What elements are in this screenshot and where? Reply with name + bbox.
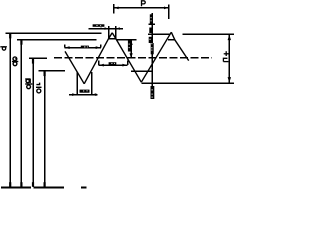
dr dimension vertical bbox=[44, 71, 46, 187]
d reference line bbox=[6, 32, 102, 34]
arrow d bottom bbox=[9, 182, 11, 186]
arrow de bottom bbox=[20, 182, 22, 186]
tooth1 tip right bbox=[112, 33, 116, 39]
arrow ht bottom bbox=[228, 77, 231, 83]
tooth1 right flank bbox=[116, 39, 142, 83]
crest line right of tooth2 bbox=[182, 33, 234, 35]
label dr rotated bbox=[36, 83, 42, 93]
label ht rotated bbox=[223, 51, 229, 61]
crest extension left tooth1 bbox=[108, 26, 110, 39]
label dp rotated bbox=[25, 79, 32, 89]
arrow groove dim right bbox=[96, 46, 101, 49]
arrow crest dim right bbox=[116, 27, 120, 30]
d dimension vertical bbox=[9, 33, 11, 187]
hook right bbox=[100, 45, 102, 48]
P left extension bbox=[113, 4, 115, 13]
hook left bbox=[98, 61, 100, 66]
tooth1 tip left bbox=[109, 33, 113, 39]
arrow de top bbox=[20, 40, 22, 45]
de dimension vertical bbox=[20, 40, 22, 187]
tiny label rotated lower blob bbox=[151, 86, 155, 99]
arrow root width left bbox=[72, 93, 77, 96]
arrow ht top bbox=[228, 35, 231, 41]
arrow dr bottom bbox=[44, 182, 46, 186]
P right extension bbox=[168, 5, 170, 19]
root width dimension line bbox=[69, 94, 98, 96]
arrow crest dim left bbox=[105, 27, 109, 30]
label d rotated bbox=[0, 47, 7, 50]
de segment right of tooth1 bbox=[117, 39, 136, 41]
thread width dimension line bbox=[99, 64, 128, 66]
tiny label 0,5P thread blob bbox=[109, 62, 117, 65]
de reference line bbox=[17, 39, 96, 41]
tooth2 right flank bbox=[175, 40, 189, 61]
tick upper bbox=[149, 23, 155, 25]
groove left flank bbox=[65, 51, 84, 83]
tiny label 60deg blob bbox=[80, 90, 90, 93]
extension right bbox=[91, 72, 93, 96]
arrow small dim top bbox=[130, 40, 133, 45]
arrow small dim bottom bbox=[130, 53, 133, 58]
tiny label rotated upper blob bbox=[150, 14, 153, 24]
arrow dr top bbox=[44, 72, 46, 77]
tooth2 tip right bbox=[171, 32, 175, 40]
hook left bbox=[64, 45, 66, 48]
dp dimension vertical bbox=[32, 58, 34, 186]
extension left bbox=[76, 72, 78, 96]
tick at d line end bbox=[100, 27, 101, 29]
tiny label 0,5P groove blob bbox=[81, 46, 89, 49]
arrow P left bbox=[114, 7, 118, 10]
ht dimension line bbox=[228, 34, 230, 83]
crest line left of tooth2 bbox=[148, 33, 170, 35]
root apex level line bbox=[142, 82, 235, 84]
tiny label 0,12P blob bbox=[93, 24, 105, 27]
dp reference line bbox=[29, 57, 47, 59]
arrow P right bbox=[164, 7, 168, 10]
groove right flank bbox=[84, 39, 108, 84]
pitch line dashed bbox=[54, 57, 212, 59]
arrow d top bbox=[9, 34, 11, 39]
crest extension right tooth1 bbox=[115, 26, 117, 39]
long extension line valley center bbox=[151, 13, 153, 92]
crest width dimension line tooth1 bbox=[88, 28, 123, 30]
dr reference line bbox=[39, 70, 65, 72]
arrow thread width left bbox=[99, 64, 104, 67]
crest flat tooth1 bbox=[109, 38, 116, 40]
arrow thread width right bbox=[122, 64, 127, 67]
label P bbox=[142, 1, 146, 7]
arrow root width right bbox=[92, 93, 97, 96]
arrow dp top bbox=[32, 59, 34, 64]
crest flat tooth2 bbox=[168, 39, 175, 41]
axis center line bbox=[1, 187, 86, 189]
arrow groove dim left bbox=[65, 46, 70, 49]
root flat line valley bbox=[131, 70, 152, 72]
small dimension de to pitch bbox=[130, 40, 132, 59]
tiny label rotated mid blob bbox=[149, 28, 154, 55]
groove width dimension line left bbox=[65, 47, 101, 49]
tooth2 left flank bbox=[141, 32, 171, 82]
arrow dp bottom bbox=[32, 182, 34, 186]
tiny label rotated 0,25P blob bbox=[128, 41, 131, 52]
P dimension line bbox=[114, 7, 169, 9]
label de rotated bbox=[12, 57, 18, 66]
hook right bbox=[127, 61, 129, 66]
